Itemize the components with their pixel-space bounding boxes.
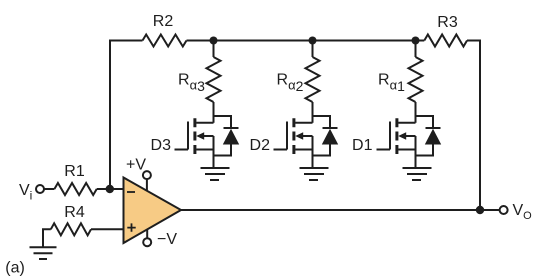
svg-text:Rα3: Rα3 xyxy=(178,72,205,95)
svg-text:R3: R3 xyxy=(437,14,458,31)
svg-text:Rα1: Rα1 xyxy=(378,72,405,95)
svg-text:R1: R1 xyxy=(64,163,85,180)
svg-text:Rα2: Rα2 xyxy=(277,72,304,95)
svg-text:R4: R4 xyxy=(64,204,85,221)
svg-text:D2: D2 xyxy=(250,137,271,154)
svg-text:−V: −V xyxy=(157,231,177,248)
svg-text:(a): (a) xyxy=(5,260,25,277)
svg-text:VO: VO xyxy=(513,202,533,222)
svg-text:D1: D1 xyxy=(352,137,373,154)
svg-text:Vi: Vi xyxy=(19,182,32,203)
svg-text:R2: R2 xyxy=(153,13,174,30)
svg-text:+V: +V xyxy=(126,157,146,174)
svg-text:D3: D3 xyxy=(151,137,172,154)
